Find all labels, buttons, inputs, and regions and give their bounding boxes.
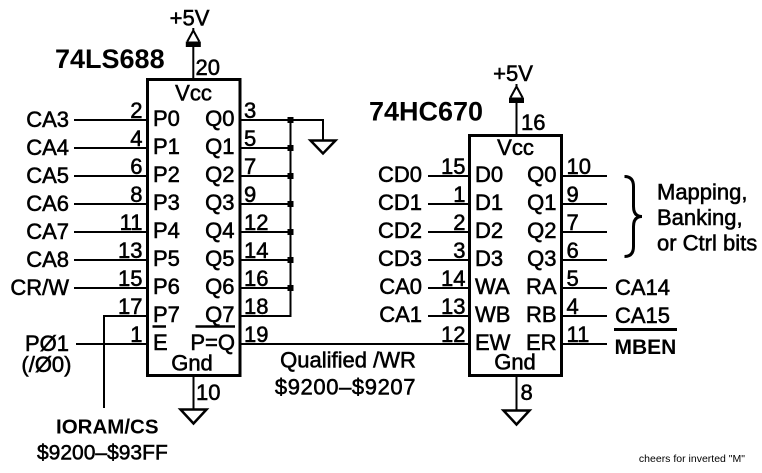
svg-text:or Ctrl bits: or Ctrl bits (657, 231, 757, 256)
wire net CA6 to U1.P3 (pin 8) (74, 203, 147, 205)
IC U1 74LS688 body (148, 80, 241, 376)
IC U2 74HC670 body (470, 136, 562, 376)
svg-text:P4: P4 (153, 218, 180, 243)
svg-text:14: 14 (441, 266, 465, 291)
svg-text:8: 8 (521, 380, 533, 405)
wire net CR/W to U1.P6 (pin 15) (74, 287, 147, 289)
svg-text:RA: RA (526, 274, 557, 299)
svg-text:CA0: CA0 (379, 274, 422, 299)
wire U1.Q0 (pin 3) to ground bus (240, 119, 292, 121)
wire net CD2 to U2.D2 (pin 2) (428, 231, 469, 233)
wire net CA5 to U1.P2 (pin 6) (74, 175, 147, 177)
wire U2.Q1 (pin 9) (562, 203, 607, 205)
svg-text:CA3: CA3 (26, 107, 69, 132)
svg-text:CD2: CD2 (378, 218, 422, 243)
wire U2 Vcc pin 16 to +5V (516, 102, 518, 135)
svg-text:4: 4 (130, 126, 142, 151)
svg-text:15: 15 (118, 266, 142, 291)
svg-text:13: 13 (118, 238, 142, 263)
svg-text:CA1: CA1 (379, 302, 422, 327)
wire U1.Q5 (pin 14) to ground bus (240, 259, 292, 261)
svg-text:16: 16 (521, 110, 545, 135)
svg-text:WB: WB (475, 302, 510, 327)
svg-text:Q3: Q3 (205, 190, 234, 215)
svg-text:1: 1 (453, 182, 465, 207)
svg-text:P0: P0 (153, 106, 180, 131)
wire net CA3 to U1.P0 (pin 2) (74, 119, 147, 121)
annotation Mapping, Banking, or Ctrl bits (657, 180, 757, 256)
U1 pin name E (153, 327, 168, 356)
wire U1.Q2 (pin 7) to ground bus (240, 175, 292, 177)
wire U1 Gnd pin 10 to ground (193, 375, 195, 409)
svg-text:MBEN: MBEN (615, 336, 677, 359)
svg-text:CD3: CD3 (378, 246, 422, 271)
svg-text:Q3: Q3 (527, 246, 556, 271)
svg-text:Q2: Q2 (205, 162, 234, 187)
svg-text:Q4: Q4 (205, 218, 234, 243)
svg-text:P6: P6 (153, 274, 180, 299)
wire IORAM/CS branch to U1.P7 (pin 17) horizontal (103, 315, 147, 317)
svg-text:Vcc: Vcc (497, 135, 534, 160)
svg-text:CD1: CD1 (378, 190, 422, 215)
wire U2 Gnd pin 8 to ground (516, 375, 518, 410)
svg-text:CA5: CA5 (26, 163, 69, 188)
svg-text:CA8: CA8 (26, 247, 69, 272)
wire U1.Q7 (pin 18) to ground bus (240, 315, 292, 317)
svg-text:74LS688: 74LS688 (55, 44, 165, 74)
svg-text:CA4: CA4 (26, 135, 69, 160)
svg-text:Q7: Q7 (205, 302, 234, 327)
ground symbol (Q bus) (311, 141, 336, 154)
svg-text:13: 13 (441, 294, 465, 319)
svg-text:Q1: Q1 (527, 190, 556, 215)
wire U2.Q3 (pin 6) (562, 259, 607, 261)
ground symbol (U1) (181, 410, 207, 424)
svg-text:CA14: CA14 (615, 275, 670, 300)
wire U2.Q0 (pin 10) (562, 175, 607, 177)
svg-text:D3: D3 (475, 246, 503, 271)
svg-text:15: 15 (441, 154, 465, 179)
wire U1.Q3 (pin 9) to ground bus (240, 203, 292, 205)
svg-text:D2: D2 (475, 218, 503, 243)
svg-text:Q6: Q6 (205, 274, 234, 299)
junction dot Q6 bus (288, 285, 294, 291)
wire net CD1 to U2.D1 (pin 1) (428, 203, 469, 205)
wire U1.Q6 (pin 16) to ground bus (240, 287, 292, 289)
svg-text:+5V: +5V (170, 6, 210, 31)
svg-text:CA7: CA7 (26, 219, 69, 244)
wire U2.Q2 (pin 7) (562, 231, 607, 233)
net label MBEN (bold, active low overline) (614, 330, 677, 360)
svg-text:2: 2 (453, 210, 465, 235)
svg-text:P7: P7 (153, 302, 180, 327)
brace for Q0-Q3 output group (625, 177, 643, 257)
wire U1.Q4 (pin 12) to ground bus (240, 231, 292, 233)
wire U2.RB (pin 4) (562, 315, 607, 317)
wire net CA7 to U1.P4 (pin 11) (74, 231, 147, 233)
wire ground bus vertical (Q0-Q7) (290, 119, 292, 317)
svg-text:P5: P5 (153, 246, 180, 271)
power symbol +5V (U1) (186, 28, 201, 47)
svg-text:Q2: Q2 (527, 218, 556, 243)
svg-text:Qualified /WR: Qualified /WR (280, 348, 416, 373)
svg-text:11: 11 (120, 210, 143, 235)
svg-text:10: 10 (196, 380, 220, 405)
svg-text:P2: P2 (153, 162, 180, 187)
wire bus to ground symbol (vertical) (322, 120, 324, 141)
svg-text:$9200–$93FF: $9200–$93FF (37, 442, 168, 465)
svg-text:74HC670: 74HC670 (369, 97, 483, 127)
wire net CD0 to U2.D0 (pin 15) (428, 175, 469, 177)
svg-text:CA6: CA6 (26, 191, 69, 216)
svg-text:(/Ø0): (/Ø0) (21, 352, 71, 377)
svg-text:CR/W: CR/W (10, 275, 69, 300)
svg-text:6: 6 (130, 154, 142, 179)
junction dot Q0 bus (288, 117, 294, 123)
svg-text:+5V: +5V (493, 61, 533, 86)
power symbol +5V (U2) (509, 84, 524, 103)
svg-text:12: 12 (441, 322, 465, 347)
ground symbol (U2) (504, 411, 530, 425)
svg-text:ER: ER (526, 330, 557, 355)
svg-text:P1: P1 (153, 134, 180, 159)
wire U2.ER (pin 11) (562, 343, 607, 345)
svg-text:$9200–$9207: $9200–$9207 (275, 375, 416, 400)
svg-text:Vcc: Vcc (175, 81, 212, 106)
svg-text:D0: D0 (475, 162, 503, 187)
svg-text:Q1: Q1 (205, 134, 234, 159)
wire U1.Q1 (pin 5) to ground bus (240, 147, 292, 149)
U1 pin name P=Q (190, 327, 235, 356)
wire IORAM/CS vertical branch to U1.P7 (103, 315, 105, 408)
wire U1 Vcc pin 20 to +5V (192, 46, 194, 79)
junction dot Q1 bus (288, 145, 294, 151)
wire net CA4 to U1.P1 (pin 4) (74, 147, 147, 149)
svg-text:D1: D1 (475, 190, 503, 215)
svg-text:CA15: CA15 (615, 303, 670, 328)
svg-text:CD0: CD0 (378, 162, 422, 187)
svg-text:RB: RB (526, 302, 557, 327)
svg-text:P=Q: P=Q (190, 330, 235, 355)
junction dot Q4 bus (288, 229, 294, 235)
svg-text:EW: EW (475, 330, 511, 355)
wire bus top to ground symbol (horizontal) (291, 119, 325, 121)
svg-text:WA: WA (475, 274, 510, 299)
svg-text:Banking,: Banking, (657, 205, 743, 230)
svg-text:IORAM/CS: IORAM/CS (56, 416, 159, 439)
svg-text:P3: P3 (153, 190, 180, 215)
junction dot Q3 bus (288, 201, 294, 207)
svg-text:2: 2 (130, 98, 142, 123)
svg-text:Q0: Q0 (527, 162, 556, 187)
svg-text:Q0: Q0 (205, 106, 234, 131)
junction dot Q2 bus (288, 173, 294, 179)
wire net CA0 to U2.WA (pin 14) (428, 287, 469, 289)
svg-text:1: 1 (130, 322, 142, 347)
svg-text:8: 8 (130, 182, 142, 207)
wire net CD3 to U2.D3 (pin 3) (428, 259, 469, 261)
junction dot Q5 bus (288, 257, 294, 263)
wire net PØ1 to U1.E (pin 1) (76, 343, 147, 345)
svg-text:cheers for inverted "M": cheers for inverted "M" (639, 453, 745, 465)
wire net CA8 to U1.P5 (pin 13) (74, 259, 147, 261)
svg-text:3: 3 (453, 238, 465, 263)
wire U2.RA (pin 5) (562, 287, 607, 289)
svg-text:E: E (153, 330, 168, 355)
svg-text:20: 20 (196, 55, 220, 80)
wire net CA1 to U2.WB (pin 13) (428, 315, 469, 317)
svg-text:Mapping,: Mapping, (657, 180, 748, 205)
svg-text:Q5: Q5 (205, 246, 234, 271)
wire net Qualified /WR : U1.P=Q (pin 19) to U2.EW (pin 12) (240, 343, 469, 345)
